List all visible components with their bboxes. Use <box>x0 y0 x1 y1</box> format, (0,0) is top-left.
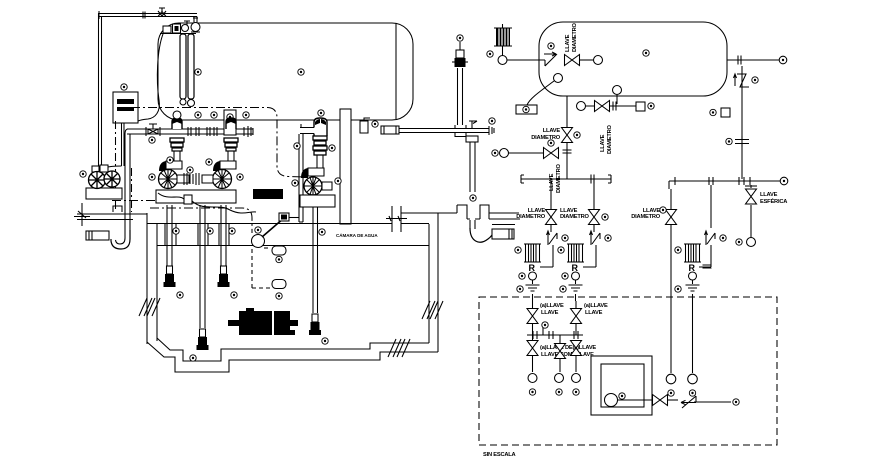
cistern right wall <box>429 213 438 352</box>
SECTION: suction manifold and pumps <box>80 110 283 249</box>
drop 3 valve (llave diametro) <box>670 189 672 301</box>
standpipe flange <box>455 58 466 67</box>
flange set <box>188 127 191 136</box>
air filter muffler <box>496 28 510 46</box>
long line from header2 <box>670 301 672 373</box>
drain instrument square <box>636 102 645 111</box>
manifold A pipe <box>127 129 253 134</box>
pump callouts <box>149 174 155 180</box>
SECTION: dashed enclosure (sin escala) <box>479 297 777 458</box>
gauge top fittings <box>163 26 171 33</box>
gauge bottom circles <box>180 99 186 105</box>
compressor unit <box>80 165 122 199</box>
pump1 riser tee <box>172 118 182 129</box>
column 2 pressure switch <box>567 244 584 262</box>
foot valve 3 <box>218 266 230 287</box>
svg-text:DIAMETRO: DIAMETRO <box>556 163 562 193</box>
column 3 pressure switch <box>684 244 701 262</box>
end circles <box>528 374 537 383</box>
tank T2 shell <box>539 22 727 96</box>
pipe to standpipe <box>399 129 489 133</box>
suction pipe 4 <box>313 207 318 313</box>
node callout inside T1 (gauge) <box>195 69 201 75</box>
SECTION: cistern <box>74 203 457 372</box>
valve on T2 drop <box>562 128 573 143</box>
standpipe callout <box>457 35 463 41</box>
svg-text:R: R <box>572 263 579 273</box>
outlet valve <box>653 395 668 406</box>
pump3 baseplate <box>300 195 335 207</box>
header 1 <box>521 178 611 180</box>
drain capped cylinder left <box>86 231 109 240</box>
right drop pipe <box>741 66 743 179</box>
pipe drop to tank top <box>193 17 198 24</box>
centerline dash-dot <box>131 107 268 109</box>
callout left of valve <box>149 137 155 143</box>
svg-text:DIAMETRO: DIAMETRO <box>572 22 578 52</box>
foot valve 2 <box>197 329 209 350</box>
svg-text:SIN ESCALA: SIN ESCALA <box>483 452 516 458</box>
box valve row 2 line1 <box>532 335 534 372</box>
cistern left wall <box>147 213 157 344</box>
wire to instrument <box>527 81 554 105</box>
box line 1 <box>532 301 534 335</box>
fitting rect <box>381 126 399 134</box>
gauge top circle A <box>182 25 189 32</box>
wall break left <box>139 298 152 316</box>
bottom drain line <box>585 105 645 107</box>
joint on top pipe <box>143 12 145 19</box>
pump P1 volute <box>159 161 191 189</box>
foot valve 4 <box>309 314 321 335</box>
submersible pump silhouette <box>228 308 298 335</box>
pump circle in tank <box>605 394 618 407</box>
foot valve 1 <box>164 266 176 287</box>
ground break left (section tick) <box>74 203 90 226</box>
suction pipe 2 <box>200 205 205 328</box>
svg-text:CÁMARA DE AGUA: CÁMARA DE AGUA <box>336 232 378 238</box>
wall break top (section ticks) <box>393 205 400 233</box>
manifold end cap <box>244 126 253 137</box>
float valve body <box>252 235 265 248</box>
sensor cable wavy <box>158 193 256 213</box>
svg-text:(a)LLAVE DE(a)LLAVE: (a)LLAVE DE(a)LLAVE <box>540 345 596 351</box>
pump P3 volute <box>292 168 341 195</box>
tank T1 shell <box>158 23 413 120</box>
pipe end cap <box>469 121 494 135</box>
svg-text:DIAMETRO: DIAMETRO <box>516 214 546 220</box>
conduit dash-dot horizontal A <box>112 200 180 202</box>
drop decanter valve <box>750 185 752 238</box>
level connection circle on T2 <box>554 74 563 83</box>
equipment square tank <box>591 356 652 415</box>
pump3 branch stub pipe <box>300 128 314 134</box>
callout above manifold 1 <box>195 112 201 118</box>
svg-text:LLAVE: LLAVE <box>543 128 561 134</box>
sensor square on pipe <box>721 108 730 117</box>
node callout inside T1 (tank) <box>298 69 304 75</box>
outlet check valve <box>681 396 696 408</box>
middle line + valve <box>559 335 561 372</box>
muffler outlet circle <box>498 56 507 65</box>
floor break right <box>388 339 401 357</box>
pipe sleeve 1 <box>165 224 176 245</box>
float arm <box>262 218 284 237</box>
T2 right nozzle <box>727 59 779 61</box>
callout above manifold 2 <box>211 112 217 118</box>
column 1 pressure switch <box>524 244 541 262</box>
svg-text:LLAVE: LLAVE <box>600 134 606 152</box>
svg-text:DIAMETRO: DIAMETRO <box>560 214 590 220</box>
centerline dash-dot corner down <box>268 108 305 178</box>
drain capped cylinder right <box>492 229 514 239</box>
outlet end callout <box>733 399 739 405</box>
SECTION: pump 3 branch and standpipe <box>292 35 520 242</box>
pump P2 volute <box>193 161 236 189</box>
svg-text:R: R <box>689 263 696 273</box>
gate valve on manifold <box>148 124 158 134</box>
pump3 riser pipe <box>317 155 323 172</box>
level gauge tubes <box>180 34 186 99</box>
column 1 check valve <box>547 231 558 245</box>
control box <box>113 92 138 123</box>
support column <box>340 109 351 224</box>
svg-text:ESFÉRICA: ESFÉRICA <box>760 197 787 205</box>
svg-text:LLAVE COMP.LLAVE: LLAVE COMP.LLAVE <box>541 352 594 358</box>
small pipe down from stub <box>299 134 303 222</box>
pipe sleeve 2 <box>198 224 208 245</box>
pipe left vertical to compressor <box>99 17 102 168</box>
outlet line <box>617 399 653 401</box>
float dashed link <box>252 249 270 288</box>
float arm device <box>279 213 289 221</box>
control box callout <box>121 84 127 90</box>
control box cable to compressor <box>122 123 125 166</box>
conduit dash-dot horizontal B <box>150 208 252 233</box>
gauge sensor cable <box>138 34 163 121</box>
conduit dash-dot vertical <box>115 121 117 212</box>
cistern floor inner <box>157 338 429 361</box>
manifold A left elbow down <box>125 129 130 138</box>
standpipe fitting square <box>456 50 464 58</box>
pump1 riser pipe <box>174 151 180 163</box>
SECTION: tank T2 (right) <box>487 22 787 193</box>
drain tee below <box>466 136 478 142</box>
pump3 riser flanges <box>313 136 327 140</box>
SECTION: distribution headers <box>516 175 788 302</box>
callout inside T2 <box>643 50 649 56</box>
svg-text:R: R <box>529 263 536 273</box>
equipment pad step <box>113 206 122 212</box>
standpipe tee <box>455 125 466 137</box>
branch line w valve <box>508 152 545 154</box>
riser callouts in cistern <box>173 228 179 234</box>
header 2 <box>669 180 780 182</box>
suction pipe 1 <box>167 205 172 266</box>
standpipe vertical <box>458 68 463 125</box>
pump2 riser tee <box>226 118 236 129</box>
drain P-trap left <box>111 230 130 249</box>
drain P-trap right <box>470 228 493 242</box>
column 3 check valve <box>705 231 716 245</box>
suction pipe 3 <box>221 205 226 266</box>
pump2 riser flanges <box>224 138 238 142</box>
decanter end circle <box>747 238 756 247</box>
union elbow piece <box>360 121 368 133</box>
svg-text:DIAMETRO: DIAMETRO <box>531 135 561 141</box>
tank T1 head seam <box>395 24 397 120</box>
union on pipe <box>735 136 749 147</box>
pump1 riser flanges <box>170 138 184 142</box>
riser stub rect above manifold at pump2 <box>224 110 236 135</box>
valve air (bowtie) <box>565 55 580 66</box>
svg-text:LLAVE: LLAVE <box>585 310 603 316</box>
T2 drop pipe <box>566 96 568 179</box>
svg-text:(a)LLAVE: (a)LLAVE <box>540 303 564 309</box>
pumps baseplate <box>156 190 236 203</box>
pump2 riser pipe <box>228 151 234 163</box>
riser from col3 <box>710 185 712 228</box>
manifold with unions <box>527 334 583 336</box>
pipe sleeve 3 <box>219 224 229 245</box>
valve on top pipe <box>158 8 166 17</box>
svg-text:LLAVE: LLAVE <box>565 34 571 52</box>
black coupling block <box>253 189 283 199</box>
pipe top feed horizontal <box>98 11 197 19</box>
box valve row 2 line2 <box>575 340 577 372</box>
float 1 <box>272 246 286 255</box>
check valve air <box>544 52 557 66</box>
drain valve <box>595 101 610 112</box>
pump3 riser elbow <box>314 118 327 136</box>
svg-text:LLAVE: LLAVE <box>760 192 778 198</box>
drop 1 from header1 <box>550 179 552 232</box>
svg-text:DIAMETRO: DIAMETRO <box>631 214 661 220</box>
cistern floor outer <box>147 342 438 372</box>
line from col3 <box>692 301 694 373</box>
SECTION: pressure switch columns <box>515 231 726 301</box>
curb stubs <box>457 205 489 219</box>
svg-text:(a)LLAVE: (a)LLAVE <box>584 303 608 309</box>
relief valve <box>734 74 750 87</box>
callout above manifold 3 <box>243 112 249 118</box>
ground line left <box>77 214 147 220</box>
drain pipe left vertical <box>125 138 130 230</box>
drop 2 from header1 <box>593 179 595 232</box>
air line <box>507 59 545 61</box>
hose end circle <box>594 56 603 65</box>
instrument box <box>516 105 537 114</box>
box line 2 <box>575 301 577 335</box>
column 2 check valve <box>590 231 601 245</box>
svg-text:LLAVE: LLAVE <box>549 173 555 191</box>
dashed box <box>479 297 777 445</box>
svg-text:DIAMETRO: DIAMETRO <box>607 124 613 154</box>
svg-text:LLAVE: LLAVE <box>541 310 559 316</box>
wall break right <box>422 301 435 319</box>
T2 bottom drain circle <box>613 86 622 95</box>
float 2 <box>272 280 286 289</box>
SECTION: top-left hydropneumatic tank <box>98 8 413 233</box>
cistern top slab lines <box>147 224 429 246</box>
gauge top circle B <box>191 23 200 32</box>
drain pipe right vertical <box>470 142 475 192</box>
sensor box on cable <box>184 195 192 204</box>
branch flange <box>563 150 572 153</box>
